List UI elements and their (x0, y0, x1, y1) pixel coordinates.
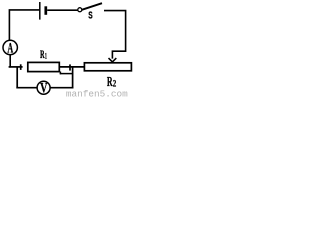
svg-text:S: S (88, 10, 92, 21)
svg-text:V: V (40, 79, 47, 96)
svg-text:1: 1 (45, 52, 47, 61)
svg-text:manfen5.com: manfen5.com (66, 88, 128, 98)
svg-text:A: A (7, 39, 13, 56)
